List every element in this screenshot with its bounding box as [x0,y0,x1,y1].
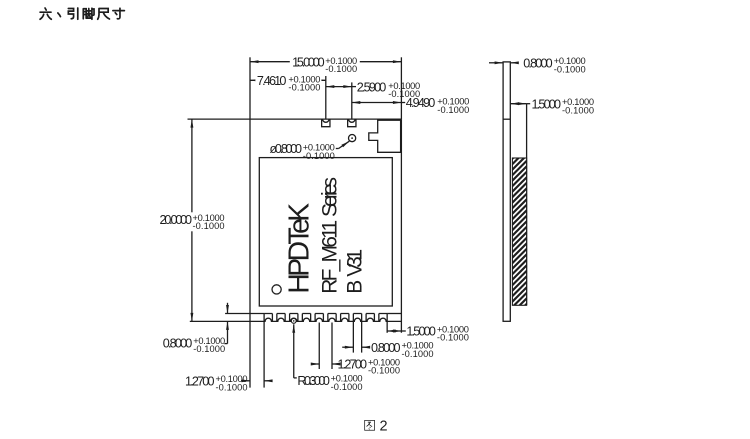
dimension 1.5000 (bottom right) line [387,330,401,332]
side view PCB profile rectangle [503,62,510,321]
antenna connector outline (top right) [369,120,401,152]
svg-text:HPDTeK: HPDTeK [283,203,315,294]
svg-text:20.0000: 20.0000 [160,213,193,227]
pin1 marker circle inside shield [272,285,281,294]
dimension 1.2700 (middle) arrows [312,363,319,365]
dimension 4.9490 line [352,102,402,104]
extension line module left top [249,57,251,119]
drill hole circle near top pins [349,135,356,142]
module outline left edge (extends down as extension line) [249,119,251,388]
svg-text:1.5000: 1.5000 [532,97,562,111]
svg-text:0.8000: 0.8000 [371,341,401,355]
svg-text:-0.1000: -0.1000 [193,221,225,231]
pad 7 (castellated bottom pad) [341,314,349,322]
R0.3000 leader [293,324,295,378]
side view shield right edge [526,104,528,306]
inner shield rectangle [259,158,392,306]
top castellated pin 2 [348,119,356,127]
pad 5 (castellated bottom pad) [315,314,323,322]
module outline top edge [250,118,401,120]
side view shield cross-section (hatched) [512,158,526,305]
dimension 2.5900 line [326,86,352,88]
svg-text:-0.1000: -0.1000 [437,105,469,115]
extension line pin1 center [325,76,327,119]
svg-text:B: B [344,280,367,294]
svg-text:R0.3000: R0.3000 [297,374,330,388]
svg-text:-0.1000: -0.1000 [437,333,469,343]
svg-text:-0.1000: -0.1000 [325,64,357,74]
module bottom edge left segment (extends left as extension line for 0.8 dim) [225,313,264,315]
side view top-edge alignment tick [503,118,510,120]
pad 2 (castellated bottom pad) [277,314,285,322]
svg-text:2.5900: 2.5900 [357,80,387,94]
svg-text:-0.1000: -0.1000 [331,382,363,392]
extension lines pad8 edges [352,321,354,352]
svg-text:4.9490: 4.9490 [406,96,436,110]
top castellated pin 1 [322,119,330,127]
svg-text:0.8000: 0.8000 [163,336,193,350]
svg-text:0.8000: 0.8000 [523,57,553,71]
svg-text:-0.1000: -0.1000 [562,105,594,115]
extension line module right top [400,57,402,119]
svg-text:1.2700: 1.2700 [338,358,368,372]
svg-text:1.5000: 1.5000 [406,325,436,339]
pad 4 (castellated bottom pad) [302,314,310,322]
svg-text:-0.1000: -0.1000 [193,344,225,354]
svg-text:2: 2 [380,419,388,435]
pad 10 (castellated bottom pad) [379,314,387,322]
svg-text:-0.1000: -0.1000 [303,151,335,161]
svg-text:RF_M611: RF_M611 [319,220,342,294]
svg-text:-0.1000: -0.1000 [554,64,586,74]
dimension 0.8000 (right) arrows [342,346,353,348]
pad 6 (castellated bottom pad) [328,314,336,322]
svg-text:15.0000: 15.0000 [292,55,325,69]
dimension 1.2700 (left) arrows [241,380,250,382]
svg-text:Series: Series [319,177,342,217]
extension line first pad left edge [263,321,265,387]
svg-text:-0.1000: -0.1000 [288,83,320,93]
title 六、引脚尺寸 [40,8,124,19]
dimension 0.8000 (left, pad depth) arrows [227,303,229,314]
R0.3000 marker circle on pad 3 [291,319,296,324]
svg-text:-0.1000: -0.1000 [402,349,434,359]
pad 9 (castellated bottom pad) [366,314,374,322]
dimension 0.8000 (side, PCB thickness) arrows [489,62,503,64]
module outline right edge (extends down as extension line) [400,119,402,333]
dimension 15.0000 line [250,61,401,63]
dimension 1.5000 (side, shield thickness) line [510,103,526,105]
svg-text:-0.1000: -0.1000 [368,366,400,376]
svg-text:7.4610: 7.4610 [257,74,287,88]
svg-text:1.2700: 1.2700 [185,375,215,389]
extension line pin2 center [351,82,353,119]
extension line module top-left horizontal [188,118,251,120]
caption 图 2 [365,420,375,430]
svg-text:-0.1000: -0.1000 [216,382,248,392]
pad-row bottom edge segments between pads [190,320,402,322]
leader line for hole diameter [336,148,339,150]
pad 1 (castellated bottom pad) [264,314,272,322]
extension lines pad5/pad6 centers [318,323,320,370]
pad 8 (castellated bottom pad) [353,314,361,322]
svg-text:V3.1: V3.1 [344,249,367,277]
extension line last pad right edge [386,321,388,332]
svg-text:ø0.8000: ø0.8000 [270,142,303,156]
module bottom edge right segment [387,313,401,315]
dimension 20.0000 line (vertical) [191,119,193,321]
dimension 7.4610 line [250,79,326,81]
pad 3 (castellated bottom pad) [290,314,298,322]
